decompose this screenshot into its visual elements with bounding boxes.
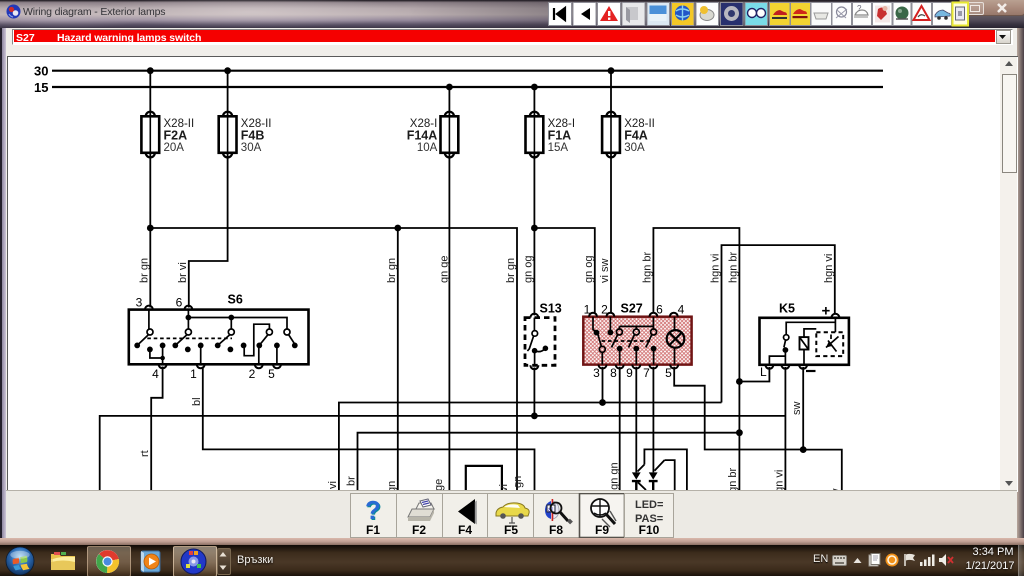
svg-text:15: 15	[34, 80, 48, 95]
svg-text:5: 5	[665, 366, 672, 380]
svg-text:+: +	[822, 303, 831, 320]
svg-text:hgn vi: hgn vi	[773, 470, 785, 490]
svg-text:rt: rt	[139, 450, 151, 457]
svg-text:20A: 20A	[164, 142, 185, 154]
svg-text:F4A: F4A	[624, 129, 648, 143]
svg-text:gn og: gn og	[583, 255, 595, 283]
svg-text:F5: F5	[504, 523, 518, 537]
svg-text:ge: ge	[433, 479, 445, 490]
svg-text:4: 4	[152, 367, 159, 381]
svg-text:1: 1	[190, 367, 197, 381]
svg-text:hgn br: hgn br	[727, 467, 739, 490]
svg-text:30: 30	[34, 64, 48, 79]
svg-text:gn ge: gn ge	[438, 255, 450, 283]
svg-text:L: L	[760, 365, 767, 379]
svg-text:?: ?	[857, 4, 862, 13]
svg-text:?: ?	[365, 495, 381, 525]
svg-text:F2A: F2A	[164, 129, 188, 143]
svg-text:F1A: F1A	[548, 129, 572, 143]
svg-text:S6: S6	[228, 293, 243, 307]
svg-text:30A: 30A	[624, 142, 645, 154]
svg-text:hgn br: hgn br	[641, 251, 653, 283]
svg-text:hgn gn: hgn gn	[608, 462, 620, 490]
svg-text:1: 1	[584, 303, 591, 317]
svg-text:vi: vi	[327, 481, 339, 489]
svg-text:S27: S27	[621, 302, 643, 316]
svg-text:hgn br: hgn br	[727, 251, 739, 283]
svg-text:15A: 15A	[548, 142, 569, 154]
svg-text:3: 3	[136, 296, 143, 310]
svg-text:br gn: br gn	[386, 258, 398, 283]
svg-text:F10: F10	[639, 523, 660, 537]
svg-text:30A: 30A	[241, 142, 262, 154]
svg-text:4: 4	[678, 303, 685, 317]
svg-text:sw: sw	[791, 402, 803, 416]
svg-text:gn: gn	[386, 481, 398, 490]
svg-text:LED=: LED=	[635, 499, 663, 511]
svg-text:F4B: F4B	[241, 129, 265, 143]
svg-text:S13: S13	[540, 302, 562, 316]
svg-text:br: br	[346, 476, 358, 486]
svg-text:hgn vi: hgn vi	[710, 254, 722, 283]
svg-text:bl: bl	[191, 397, 203, 406]
svg-text:br vi: br vi	[177, 262, 189, 283]
svg-text:F9: F9	[595, 523, 609, 537]
svg-text:6: 6	[176, 296, 183, 310]
svg-text:gn og: gn og	[522, 255, 534, 283]
svg-text:F2: F2	[412, 523, 426, 537]
svg-text:10A: 10A	[417, 142, 438, 154]
svg-text:F1: F1	[366, 523, 380, 537]
svg-text:K5: K5	[779, 302, 795, 316]
svg-text:br gn: br gn	[138, 258, 150, 283]
svg-text:9: 9	[626, 366, 633, 380]
svg-text:7: 7	[643, 366, 650, 380]
svg-text:5: 5	[268, 367, 275, 381]
svg-text:8: 8	[610, 366, 617, 380]
svg-text:F4: F4	[458, 523, 472, 537]
svg-text:2: 2	[601, 303, 608, 317]
svg-text:gn: gn	[512, 476, 524, 488]
svg-text:hgn vi: hgn vi	[823, 254, 835, 283]
svg-text:F14A: F14A	[407, 129, 438, 143]
svg-text:br gn: br gn	[505, 258, 517, 283]
svg-text:3: 3	[593, 366, 600, 380]
svg-text:2: 2	[249, 367, 256, 381]
svg-text:F8: F8	[549, 523, 563, 537]
svg-text:vi sw: vi sw	[599, 259, 611, 284]
svg-text:6: 6	[656, 303, 663, 317]
